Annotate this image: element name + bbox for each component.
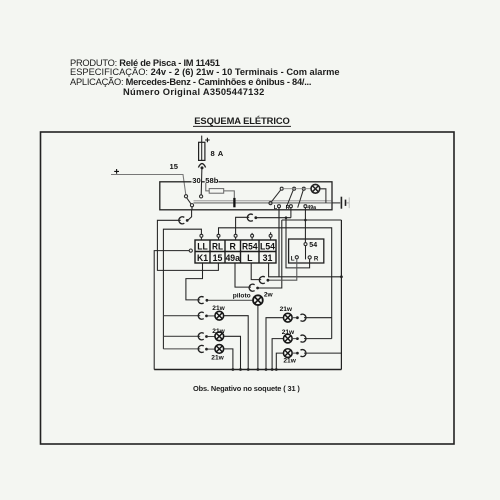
wire terminal L long drop [278,208,280,277]
svg-text:L: L [274,205,278,211]
wire bus to lamp R2 [272,339,284,370]
svg-text:15: 15 [213,253,223,263]
wire R1 to right rail [304,317,332,319]
resistor 58b [206,183,235,198]
socket circles above table [200,234,203,237]
terminal K1 side circle [189,249,192,252]
lamp L2 21w [215,332,224,341]
connector pin dot R1 [296,316,299,319]
piloto connector pin dot [206,299,209,302]
connector socket L2 [198,333,203,340]
label 30 [192,177,202,184]
junction dots on ground bus [232,368,278,371]
wire 49a cell drop to connector [235,263,251,288]
plus sign at fuse top [205,138,210,143]
left lamp L2 feed wire [163,335,200,337]
connector socket 49a-line [249,284,254,291]
connector pin dot 15-line [186,219,189,222]
bottom note [193,384,300,393]
stubs socket circles to table [201,237,270,240]
wire lamp R1 to pin [292,317,296,319]
wire 54box L drop to connector pin [269,259,297,280]
hazard switch box 54 [289,239,324,263]
connector socket below fuse [198,164,205,168]
wire RL riser bridge to right rail [219,228,332,339]
svg-text:2w: 2w [264,292,274,299]
wire K1 side to left ground rail [154,251,189,370]
connector socket 15-line [179,217,184,224]
connector pin dot L1 [205,315,208,318]
svg-text:L: L [291,255,295,262]
wire lamp to bus [320,189,326,203]
capacitor plate long [340,197,342,209]
lamp L3 21w [215,345,224,354]
switch 54 arm [305,246,307,260]
indicator lamp inside switch [311,184,320,193]
svg-text:15: 15 [170,162,179,171]
wire lamp L1 to bus [224,316,249,370]
wire pin to lamp L3 [208,348,215,350]
wire pin to lamp L1 [208,315,215,317]
junction dot R branch [285,216,288,219]
left lamp L3 feed wire [163,348,200,350]
wire table R column riser to connector [236,217,250,234]
switch arm diagonal 3 [298,190,304,207]
wire R branch down to 54box R [286,218,310,268]
wire R3 to ground rail [304,352,341,354]
lamp L1 21w [215,311,224,320]
wire piloto drop to bus [257,305,259,369]
wire 49a branch down to connector pin [258,220,281,288]
svg-text:21w: 21w [280,306,293,313]
wire lamp R3 to pin [292,352,296,354]
terminal 49a circle in switch [304,205,307,208]
title ESQUEMA ELETRICO [193,115,291,126]
svg-text:21w: 21w [211,355,224,362]
svg-text:LL: LL [197,241,208,251]
wire linking upper contacts to lamp [283,188,311,190]
svg-text:49a: 49a [307,205,316,211]
wire +15 feed [111,175,186,195]
wire lamp L2 to bus [224,336,241,369]
wire terminal 49a drop [304,208,306,220]
lamp R2 21w [283,334,292,343]
terminal R circle in switch [289,205,292,208]
wire R2 to right rail [304,338,332,340]
connector pin dot R-line [254,216,257,219]
lamp R3 21w [283,349,292,358]
wire 54 feed [304,220,306,243]
terminal 30 circle [200,195,203,198]
stub above circle R54 [251,233,253,234]
connector socket L1 [198,312,203,319]
wire lamp L3 to bus [224,349,233,370]
svg-text:8 A: 8 A [211,149,224,158]
left lamp L1 feed wire [163,315,200,317]
wire bus to lamp R3 [276,353,283,369]
switch arm diagonal 1 [272,190,281,202]
wire K1 cell drop [202,263,204,271]
plus sign at wire 15 [114,169,119,174]
thick contact bar [233,198,235,207]
svg-text:30: 30 [192,176,200,185]
wire connector to left rail down to relay level [157,220,218,270]
svg-text:R54: R54 [242,241,258,251]
svg-text:L: L [247,253,253,263]
table labels row 2 [197,253,272,263]
capacitor stub wire [346,202,349,204]
table labels row 1 [197,241,275,251]
svg-text:R: R [230,241,237,251]
wire terminal 15 to junction [187,198,191,204]
wire bus to lamp R1 [266,318,284,370]
wire lamp R2 to pin [292,338,296,340]
header product text lines [70,58,220,68]
wire table L cell drop to connector [251,263,261,280]
terminal L circle in switch [278,205,281,208]
junction circle on bus [190,204,193,207]
wire battery feed to fuse [201,136,203,143]
piloto connector socket [198,297,203,304]
svg-text:54: 54 [309,242,317,249]
junction dot 49a-54 [304,219,307,222]
lamp R1 21w [283,313,292,322]
junction dot rail 31 [340,275,343,278]
svg-text:RL: RL [212,241,224,251]
connector pin dot 49a-line [256,287,259,290]
relay connector table [195,240,276,263]
svg-text:58b: 58b [205,176,218,185]
wire K1/15 net to piloto feed [186,270,203,300]
switch upper contact circles [280,187,283,190]
svg-text:49a: 49a [225,253,240,263]
connector pin dot L-line [267,279,270,282]
wire junction drop below box [188,207,192,220]
connector pin dot L3 [205,348,208,351]
connector socket L3 [198,345,203,352]
common contact circle on bus [269,202,272,205]
ground rail right [340,220,342,370]
connector pin dot below fuse [201,166,204,169]
svg-text:R: R [314,255,319,262]
switch unit housing box [160,182,332,210]
svg-text:R: R [286,205,290,211]
wire piloto pin to lamp [208,299,253,301]
terminal R circle of 54 box [308,256,311,259]
stub above circle L54 [270,232,272,234]
capacitor ghost plate [348,197,350,208]
wire 31 cell to ground rail [269,263,342,277]
wire terminal R drop [290,208,292,218]
connector socket R3 [301,350,306,357]
switch arm diagonal 2 [286,190,293,208]
wire pin to lamp L2 [208,336,215,338]
terminal 15 circle [184,195,187,198]
internal bus line lower [194,202,332,204]
internal bus line upper [194,200,332,202]
piloto lamp 2w [253,295,263,305]
connector socket L-line [259,277,264,284]
connector socket R2 [301,335,306,342]
wire 49a horizontal to ground rail [282,219,342,221]
svg-text:K1: K1 [197,253,208,263]
connector pin dot R3 [296,352,299,355]
svg-text:piloto: piloto [233,293,251,300]
terminal 54 circle [304,243,307,246]
wire fuse to terminal 30 [200,168,203,195]
outer border frame [41,132,455,444]
svg-text:21w: 21w [283,358,296,365]
ground bus bottom [154,369,341,371]
wire R to connector [257,217,291,219]
connector socket R1 [301,314,306,321]
connector socket R-line [247,214,252,221]
label 58b [205,177,219,184]
terminal L circle of 54 box [295,256,298,259]
capacitor wire from switch box [332,202,340,204]
capacitor plate short [345,200,347,206]
svg-text:L54: L54 [260,241,275,251]
svg-text:31: 31 [263,253,273,263]
title underline [193,125,291,127]
fuse F1 8A [199,142,205,160]
connector pin dot R2 [296,337,299,340]
wire LL riser and left rail [163,229,201,349]
connector pin dot L2 [205,335,208,338]
